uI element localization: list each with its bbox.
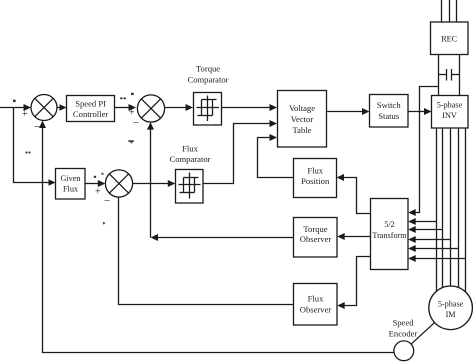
svg-text:REC: REC	[441, 35, 457, 44]
wire 3-phase supply line a	[441, 0, 443, 22]
label plus J2	[129, 108, 135, 119]
wire inverter phase line 1	[436, 128, 438, 295]
wire 5/2 Transform to Torque Observer	[337, 233, 370, 240]
svg-text:+: +	[95, 187, 101, 198]
summing junction J2 (torque error)	[137, 95, 164, 122]
block torque hysteresis comparator	[194, 93, 222, 126]
svg-text:IM: IM	[446, 310, 457, 319]
wire inverter phase line 4	[458, 128, 460, 288]
svg-text:Transform: Transform	[372, 231, 407, 240]
svg-text:INV: INV	[442, 111, 457, 120]
wire Given Flux to J3	[85, 180, 105, 187]
block Given Flux	[56, 169, 86, 200]
wire speed reference input	[0, 107, 26, 109]
block flux hysteresis comparator	[176, 170, 204, 204]
block Flux Position	[294, 159, 337, 198]
svg-text:5-phase: 5-phase	[437, 101, 463, 110]
summing junction J1 (speed error)	[31, 95, 57, 121]
wire inverter phase line 5	[465, 128, 467, 292]
svg-text:Comparator: Comparator	[187, 75, 228, 85]
wire Torque Comparator to Voltage Vector Table	[222, 104, 278, 111]
svg-text:Flux: Flux	[308, 294, 324, 304]
svg-text:5-phase: 5-phase	[438, 300, 464, 309]
svg-text:Speed: Speed	[392, 318, 414, 328]
label Torque Comparator	[187, 64, 228, 85]
label torque reference	[120, 93, 134, 99]
wire J3 to Flux Comparator	[133, 180, 176, 187]
wire J2 to Torque Comparator	[165, 104, 193, 111]
svg-text:−: −	[104, 195, 110, 207]
node speed-ref arrow into J1	[24, 104, 32, 111]
wire Flux Comparator to Voltage Vector Table	[203, 120, 277, 184]
svg-text:Position: Position	[301, 176, 330, 186]
wire 3-phase supply line c	[456, 0, 458, 22]
svg-text:Status: Status	[378, 111, 400, 121]
svg-text:+: +	[22, 109, 28, 120]
wire 5/2 Transform to Flux Observer	[337, 257, 370, 310]
block 5/2 Transform	[371, 199, 409, 270]
svg-text:Voltage: Voltage	[289, 103, 315, 113]
wire phase 3 current tap	[408, 236, 450, 243]
label flux reference	[94, 173, 104, 178]
block REC rectifier	[431, 22, 469, 55]
label Flux Comparator	[169, 144, 210, 165]
wire phase 5 current tap	[408, 255, 465, 262]
svg-text:5/2: 5/2	[384, 220, 394, 229]
wire J1 to Speed PI Controller	[57, 104, 67, 111]
label minus J3	[104, 195, 110, 207]
label plus J1	[22, 109, 28, 120]
wire speed feedback to J1	[39, 121, 398, 353]
wire phase 4 current tap	[408, 245, 458, 252]
svg-text:−: −	[34, 121, 40, 133]
label minus J1	[34, 121, 40, 133]
wire Torque Observer feedback to J2	[147, 122, 294, 241]
block Flux Observer	[294, 284, 338, 326]
label Speed Encoder	[389, 318, 418, 339]
svg-text:Vector: Vector	[291, 114, 314, 124]
wire Flux Observer feedback to J3	[119, 197, 294, 304]
block Speed PI Controller	[67, 96, 115, 122]
svg-text:Flux: Flux	[182, 144, 198, 154]
wire encoder-motor shaft link	[404, 308, 451, 351]
label minus J2	[133, 117, 139, 129]
block Switch Status	[370, 95, 409, 128]
block Torque Observer	[294, 218, 338, 258]
svg-text:Flux: Flux	[63, 185, 78, 194]
svg-text:Observer: Observer	[300, 305, 332, 315]
summing junction J3 (flux error)	[105, 170, 132, 197]
svg-text:Flux: Flux	[307, 166, 323, 176]
block Voltage Vector Table	[278, 91, 327, 148]
wire phase 2 current tap	[408, 226, 442, 233]
svg-text:−: −	[133, 117, 139, 129]
speed encoder	[394, 341, 414, 361]
svg-text:Comparator: Comparator	[169, 154, 210, 164]
label speed reference star	[13, 100, 16, 102]
wire branch to Given Flux	[14, 108, 56, 186]
wire Switch Status to 5-phase INV	[408, 108, 432, 115]
svg-text:Encoder: Encoder	[389, 329, 418, 339]
wire Flux Position to Voltage Vector Table	[258, 134, 294, 178]
svg-text:Speed PI: Speed PI	[75, 99, 106, 109]
svg-text:Given: Given	[60, 174, 80, 183]
wire DC voltage tap to 5/2 Transform	[408, 87, 438, 217]
wire 5/2 Transform to Flux Position	[337, 174, 371, 214]
wire inverter phase line 2	[442, 128, 444, 292]
wire Voltage Vector Table to Switch Status	[327, 108, 370, 115]
svg-text:Controller: Controller	[73, 109, 108, 119]
wire DC bus right	[459, 55, 461, 96]
svg-text:Torque: Torque	[303, 224, 327, 234]
motor 5-phase IM	[429, 286, 473, 330]
svg-text:Observer: Observer	[300, 234, 332, 244]
wire 3-phase supply line b	[449, 0, 451, 22]
label torque feedback mark	[128, 140, 134, 143]
label speed feedback mark	[26, 152, 31, 154]
wire Speed PI to J2	[115, 104, 137, 111]
label plus J3	[95, 187, 101, 198]
wire phase 1 current tap	[408, 218, 436, 225]
capacitor DC link	[439, 69, 460, 81]
svg-text:Torque: Torque	[196, 64, 220, 74]
svg-text:Switch: Switch	[377, 100, 402, 110]
wire DC bus left	[438, 55, 440, 96]
block 5-phase INV inverter	[432, 96, 469, 129]
wire inverter phase line 3	[450, 128, 452, 288]
label flux feedback mark	[103, 222, 106, 225]
svg-text:Table: Table	[293, 125, 312, 135]
